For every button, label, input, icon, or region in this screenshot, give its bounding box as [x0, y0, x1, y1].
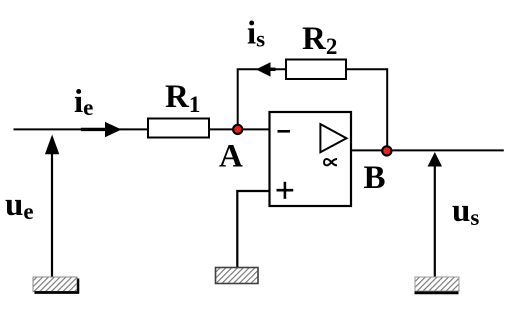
- resistor R1: [148, 119, 209, 138]
- wire output from op-amp to right: [351, 149, 504, 151]
- op-amp infinite-gain symbol (proportional sign): [324, 159, 337, 165]
- ground middle (op-amp plus input): [216, 268, 259, 284]
- current arrow i_e: [81, 122, 122, 137]
- svg-text:A: A: [219, 139, 243, 175]
- voltage arrow u_s: [428, 152, 442, 277]
- op-amp minus input symbol: [278, 130, 291, 133]
- resistor R2: [286, 60, 346, 80]
- wire op-amp plus input to ground (left + down): [237, 191, 269, 268]
- node A: [233, 125, 242, 134]
- wire node A up to feedback branch: [237, 69, 239, 129]
- ground right (output reference): [415, 277, 460, 293]
- node B: [382, 146, 391, 155]
- ground left (input reference): [33, 277, 79, 294]
- wire feedback left segment to R2: [237, 68, 286, 70]
- wire input from left edge to R1: [14, 128, 149, 130]
- op-amp U1: [270, 112, 352, 206]
- op-amp plus input symbol: [277, 189, 294, 192]
- svg-text:B: B: [364, 160, 386, 196]
- voltage arrow u_e: [45, 135, 59, 278]
- current arrow i_s: [256, 62, 276, 76]
- op-amp gain triangle: [320, 124, 346, 152]
- wire R1 to op-amp inverting input: [209, 128, 270, 130]
- wire R2 to node B (right + down): [346, 69, 387, 150]
